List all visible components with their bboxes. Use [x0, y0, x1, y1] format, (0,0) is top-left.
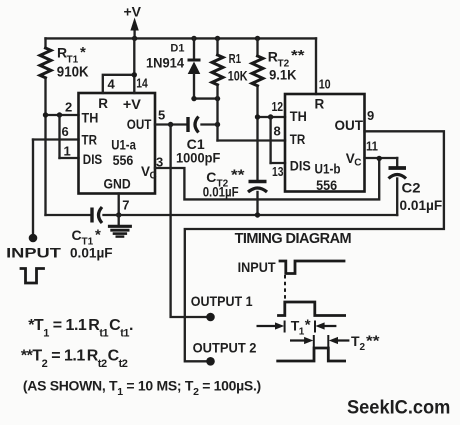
wire OUT pin9 to OUTPUT 2: [185, 131, 444, 361]
junction dot rail/+V: [132, 36, 137, 41]
junction dot rail/D1: [191, 36, 196, 41]
svg-text:R1: R1: [229, 51, 241, 66]
resistor RT2: [252, 38, 305, 117]
input waveform: [280, 261, 344, 274]
capacitor C2: [389, 158, 443, 215]
output1 waveform: [279, 302, 345, 316]
output2 waveform: [278, 348, 345, 361]
op-amp U1-b box: [285, 94, 365, 192]
svg-text:9.1K: 9.1K: [269, 67, 296, 83]
wire TH-DIS tie U1-a: [58, 115, 60, 158]
wire rail to pin10: [315, 38, 317, 94]
svg-text:*: *: [80, 44, 86, 61]
svg-text:12: 12: [272, 99, 284, 114]
junction dot D1 bottom: [191, 96, 196, 101]
svg-text:8: 8: [274, 124, 281, 139]
svg-text:5: 5: [158, 108, 165, 123]
svg-text:DIS: DIS: [83, 152, 102, 167]
wire top +V rail: [46, 37, 317, 39]
wire RT2/CT2 column TH12: [256, 117, 258, 181]
capacitor CT1: [70, 207, 113, 261]
svg-text:10K: 10K: [228, 68, 248, 84]
wire DIS pin1: [60, 157, 79, 159]
junction dot TH12/tie: [268, 114, 273, 119]
svg-text:*: *: [95, 227, 101, 244]
svg-text:1000pF: 1000pF: [176, 150, 221, 166]
junction dot pin4 box: [132, 72, 137, 77]
svg-text:**: **: [366, 333, 380, 350]
T2 dimension arrows: [290, 333, 380, 354]
svg-text:0.01µF: 0.01µF: [400, 197, 443, 213]
svg-text:GND: GND: [104, 176, 131, 191]
wire Vc3 long run to Vc11: [155, 158, 379, 199]
wire TR pin6: [33, 138, 79, 140]
junction dot OUT5: [168, 122, 173, 127]
input pulse symbol: [21, 269, 44, 284]
junction dot C1/R1 column: [215, 122, 220, 127]
svg-text:2: 2: [360, 342, 366, 353]
svg-text:**: **: [291, 47, 305, 64]
svg-text:+V: +V: [124, 4, 142, 20]
wire GND pin7: [118, 194, 120, 216]
wire OUT5 drop to OUTPUT 1: [171, 125, 208, 318]
svg-text:9: 9: [367, 108, 374, 123]
wire C1 node to TR pin8: [218, 139, 286, 141]
junction dot pin7/ground rail: [116, 212, 121, 217]
junction dot TH12/RT2: [255, 114, 260, 119]
wire pin14 +V drop: [133, 38, 135, 93]
wire D1 to R1 bottom link: [194, 97, 218, 99]
capacitor C1: [176, 117, 221, 166]
op-amp U1-a box: [79, 93, 156, 194]
ground rail: [46, 214, 91, 216]
junction dot TH/tie: [57, 112, 62, 117]
svg-text:556: 556: [113, 153, 134, 168]
node +V supply arrow: [124, 4, 142, 39]
junction dot rail/R1: [215, 36, 220, 41]
T1 dimension arrows: [257, 317, 337, 338]
wire INPUT drop: [32, 140, 34, 235]
svg-text:**: **: [231, 167, 245, 184]
svg-text:TIMING DIAGRAM: TIMING DIAGRAM: [235, 231, 352, 247]
svg-text:OUT: OUT: [127, 117, 152, 132]
wire Vc pin11: [365, 157, 398, 159]
svg-text:U1-b: U1-b: [315, 162, 341, 177]
junction dot Vc11/long run: [377, 156, 382, 161]
svg-text:D1: D1: [170, 43, 184, 55]
svg-text:OUT: OUT: [335, 118, 364, 133]
node OUTPUT 2 terminal: [206, 357, 215, 366]
svg-text:2: 2: [65, 100, 72, 115]
svg-text:0.01µF: 0.01µF: [70, 245, 113, 261]
svg-text:SeekIC.com: SeekIC.com: [347, 398, 450, 419]
svg-text:4: 4: [108, 77, 116, 92]
junction dot CT2/ground rail: [255, 212, 260, 217]
svg-text:1: 1: [64, 144, 71, 159]
pin 4 box: [103, 75, 135, 93]
dashed edge line: [284, 275, 286, 301]
svg-text:C: C: [72, 227, 82, 243]
svg-text:+V: +V: [123, 97, 141, 112]
wire CT2 bottom to ground rail: [256, 192, 258, 215]
svg-text:TR: TR: [290, 132, 306, 147]
wire OUT pin5: [155, 123, 187, 125]
wire DIS pin13: [271, 162, 285, 164]
svg-text:TH: TH: [82, 110, 99, 125]
wire TH-DIS tie U1-b: [269, 117, 271, 163]
junction dot TH/RT1: [43, 112, 48, 117]
svg-text:10: 10: [319, 77, 331, 92]
svg-text:R: R: [315, 96, 325, 111]
node INPUT terminal: [29, 234, 38, 243]
svg-text:556: 556: [316, 178, 337, 193]
svg-text:6: 6: [62, 124, 69, 139]
svg-text:14: 14: [136, 76, 148, 91]
svg-text:7: 7: [122, 198, 129, 213]
svg-text:TH: TH: [290, 109, 307, 124]
svg-text:OUTPUT 2: OUTPUT 2: [193, 340, 257, 356]
svg-text:R: R: [268, 49, 278, 65]
svg-text:*: *: [305, 317, 311, 334]
junction dot link/R1 column: [215, 96, 220, 101]
svg-text:910K: 910K: [57, 64, 89, 81]
capacitor CT2: [203, 167, 267, 200]
svg-text:13: 13: [272, 164, 284, 179]
diode D1: [146, 38, 201, 98]
svg-text:DIS: DIS: [290, 159, 311, 174]
svg-text:TR: TR: [82, 132, 98, 147]
svg-text:C: C: [150, 171, 157, 182]
svg-text:R: R: [98, 96, 108, 111]
svg-text:1N914: 1N914: [146, 56, 184, 71]
ground: [108, 215, 132, 237]
wire TH pin2: [46, 114, 79, 116]
svg-text:U1-a: U1-a: [111, 138, 136, 153]
svg-text:0.01µF: 0.01µF: [203, 184, 239, 200]
svg-text:INPUT: INPUT: [6, 244, 61, 260]
wire RT1 column down to ground rail: [44, 115, 46, 215]
svg-text:C2: C2: [402, 180, 421, 196]
svg-text:11: 11: [366, 139, 378, 154]
node OUTPUT 1 terminal: [206, 313, 215, 322]
svg-text:OUTPUT 1: OUTPUT 1: [191, 293, 253, 309]
svg-text:INPUT: INPUT: [238, 259, 276, 275]
wire TH pin12: [258, 116, 286, 118]
svg-text:C: C: [354, 158, 361, 169]
junction dot rail/RT2: [255, 36, 260, 41]
resistor R1: [212, 38, 248, 140]
wire C1 right: [202, 123, 218, 125]
resistor RT1: [40, 38, 89, 115]
